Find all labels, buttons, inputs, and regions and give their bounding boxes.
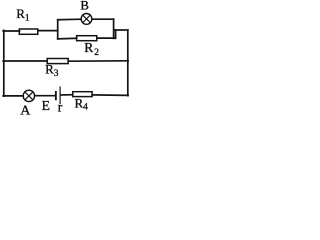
resistor R2 <box>77 36 97 41</box>
svg-text:r: r <box>58 100 63 115</box>
svg-text:R4: R4 <box>75 95 89 112</box>
resistor R4 <box>73 92 92 97</box>
wire left rail <box>3 30 5 96</box>
battery E internal resistance r <box>55 86 61 104</box>
wire middle left <box>3 60 47 62</box>
wire battery to R4 <box>60 94 72 96</box>
wire lamp branch left <box>58 18 81 21</box>
svg-text:R1: R1 <box>16 6 30 23</box>
resistor R1 <box>19 29 38 34</box>
wire R4 to rail <box>92 94 128 97</box>
wire R2 branch left <box>58 37 77 40</box>
wire middle right <box>68 60 128 62</box>
wire lamp A to battery <box>35 95 55 97</box>
resistor R3 <box>47 59 68 64</box>
svg-text:A: A <box>20 104 31 116</box>
wire bottom left <box>3 95 23 97</box>
lamp B <box>81 14 92 25</box>
wire R1 to loop <box>38 30 58 32</box>
svg-text:E: E <box>42 98 50 113</box>
wire step to rail <box>115 29 128 31</box>
svg-text:R2: R2 <box>84 40 99 58</box>
wire right rail <box>127 30 129 96</box>
wire R2 branch right <box>97 37 116 39</box>
wire lamp branch right <box>92 18 114 20</box>
wire loop right vertical <box>113 19 115 38</box>
wire loop left vertical <box>57 20 59 39</box>
svg-text:B: B <box>80 0 89 13</box>
lamp A <box>23 90 34 101</box>
wire top left <box>3 30 19 32</box>
wire step up <box>115 30 117 38</box>
